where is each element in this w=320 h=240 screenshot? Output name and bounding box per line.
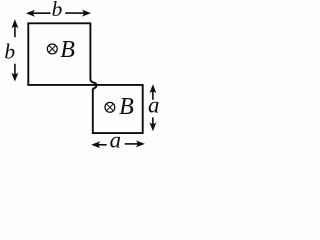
field symbol: circled-X (into page) in small loop — [105, 102, 115, 112]
dimension arrow: left-down (points down), tip near big-loop bottom — [11, 64, 18, 82]
dimension arrow: left-up (points up), tip near big-loop top — [11, 19, 18, 37]
wire: crossover bump at junction — [91, 79, 97, 90]
dimension arrow: right-down (points down), tip at small-loop bottom — [149, 117, 156, 131]
field symbol: circled-X (into page) in big loop — [47, 44, 57, 54]
svg-text:b: b — [4, 39, 15, 63]
svg-text:a: a — [148, 92, 159, 117]
dimension arrow: top-left (points left), tip at big-loop left edge — [26, 10, 51, 17]
wire: shared horizontal segment (big loop bottom + small loop top) — [27, 84, 143, 86]
svg-text:B: B — [60, 37, 75, 63]
svg-text:b: b — [52, 0, 63, 21]
dimension arrow: right-up (points up), tip at small-loop top — [149, 84, 156, 100]
wire: big loop (left, top, right sides) — [28, 23, 90, 85]
dimension arrow: bottom-left (points left), tip at small-loop left edge — [91, 141, 106, 148]
dimension arrow: bottom-right (points right), tip at small-loop right edge — [125, 140, 145, 147]
dimension arrow: top-right (points right), tip at big-loop right edge — [65, 10, 91, 17]
svg-text:a: a — [110, 128, 121, 153]
wire: small loop (left, bottom, right sides) — [93, 85, 143, 133]
svg-text:B: B — [119, 94, 134, 120]
